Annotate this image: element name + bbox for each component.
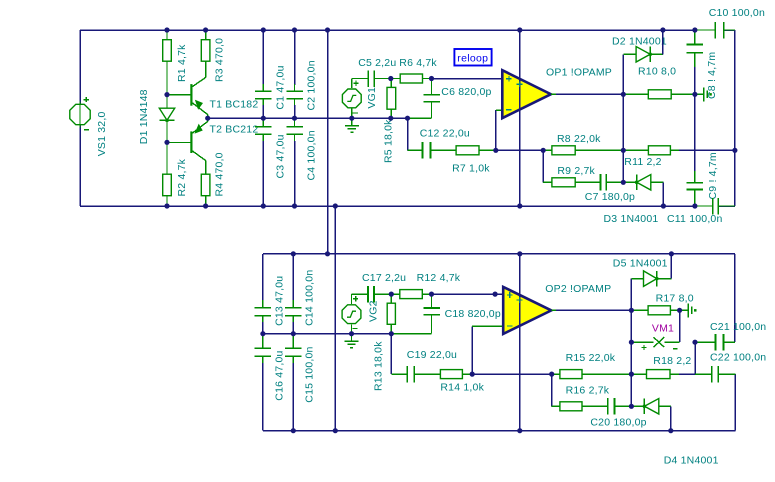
op-amp OP1 xyxy=(502,70,558,118)
resistor R16 xyxy=(552,402,608,411)
wire OP1 power rail xyxy=(517,30,523,206)
svg-text:C4 100,0n: C4 100,0n xyxy=(305,130,317,180)
diode D1 xyxy=(159,95,174,143)
diode D5 xyxy=(631,271,671,287)
svg-text:reloop: reloop xyxy=(457,53,488,65)
wire lower right rail upper xyxy=(734,254,736,342)
resistor R3 xyxy=(201,30,210,61)
wire left rail (above VS1) xyxy=(79,30,81,104)
wire mid node lower block xyxy=(263,333,391,335)
svg-text:C9 ! 4,7m: C9 ! 4,7m xyxy=(707,152,719,199)
capacitor C5 xyxy=(368,70,391,87)
svg-text:C17 2,2u: C17 2,2u xyxy=(362,272,406,284)
wire D4 to -V xyxy=(670,406,672,430)
wire R16 branch xyxy=(551,374,553,406)
label D4 1N4001 xyxy=(664,454,719,466)
ground (below VG1) xyxy=(345,118,359,132)
resistor R14 xyxy=(440,370,472,379)
svg-text:C16 47,0u: C16 47,0u xyxy=(273,350,285,400)
capacitor C11 xyxy=(695,198,735,215)
svg-text:R13 18,0k: R13 18,0k xyxy=(373,341,385,391)
wire emitter mid node xyxy=(208,117,408,119)
capacitor C20 xyxy=(608,398,632,415)
source VG1 xyxy=(342,79,368,119)
resistor R8 xyxy=(543,146,623,155)
wire VM1 right branch xyxy=(664,310,679,342)
label D5 1N4001 xyxy=(613,257,668,269)
label R11 2,2 xyxy=(624,156,661,168)
svg-text:D4 1N4001: D4 1N4001 xyxy=(664,454,719,466)
svg-text:R8 22,0k: R8 22,0k xyxy=(557,133,601,145)
capacitor C12 xyxy=(408,142,457,159)
label C3 47,0u xyxy=(275,134,287,178)
svg-text:C3 47,0u: C3 47,0u xyxy=(275,134,287,178)
label C18 820,0p xyxy=(445,308,501,320)
label C19 22,0u xyxy=(407,349,457,361)
wire -V rail (bottom, left section) xyxy=(80,205,695,207)
label T1 BC182 xyxy=(210,99,259,111)
junction dots (lower block) xyxy=(260,251,697,433)
label C8 ! 4,7m xyxy=(706,52,718,99)
wire R9 branch xyxy=(542,150,544,182)
resistor R9 xyxy=(543,178,600,187)
wire right rail xyxy=(734,30,736,206)
label C6 820,0p xyxy=(441,86,491,98)
svg-text:OP1 !OPAMP: OP1 !OPAMP xyxy=(546,67,612,79)
label OP1 !OPAMP xyxy=(546,67,612,79)
capacitor C18 xyxy=(391,294,439,334)
label T2 BC212 xyxy=(210,123,259,135)
capacitor C15 xyxy=(285,334,302,431)
wire +V rail (top, left section) xyxy=(80,29,695,31)
label R18 2,2 xyxy=(653,355,691,367)
svg-text:R17 8,0: R17 8,0 xyxy=(656,293,694,305)
svg-text:D1 1N4148: D1 1N4148 xyxy=(138,89,150,144)
resistor R10 xyxy=(623,90,695,99)
resistor R18 xyxy=(631,370,679,379)
svg-text:C10 100,0n: C10 100,0n xyxy=(709,7,765,19)
capacitor C7 xyxy=(601,174,624,191)
svg-text:R4 470,0: R4 470,0 xyxy=(214,152,226,196)
wire OP2 output xyxy=(556,309,631,311)
wire -V to lower block xyxy=(334,206,336,431)
label VG2 xyxy=(368,300,380,322)
resistor R13 xyxy=(387,294,395,334)
label C9 ! 4,7m xyxy=(707,152,719,199)
capacitor C14 xyxy=(285,254,302,334)
svg-text:R5 18,0k: R5 18,0k xyxy=(383,119,395,163)
capacitor C2 xyxy=(286,30,303,118)
capacitor C21 xyxy=(695,334,735,351)
meter VM1 xyxy=(631,337,677,350)
resistor R11 xyxy=(623,146,735,155)
label R7 1,0k xyxy=(452,163,490,175)
label C13 47,0u xyxy=(273,276,285,326)
wire D3 to -V xyxy=(662,182,664,206)
svg-text:R2 4,7k: R2 4,7k xyxy=(176,158,188,196)
label R13 18,0k xyxy=(373,341,385,391)
wire -V rail (right of C11) xyxy=(719,205,735,207)
svg-text:R15 22,0k: R15 22,0k xyxy=(566,352,616,364)
svg-text:C5 2,2u: C5 2,2u xyxy=(358,57,396,69)
label R12 4,7k xyxy=(417,272,461,284)
svg-text:C7 180,0p: C7 180,0p xyxy=(585,191,635,203)
label R5 18,0k xyxy=(383,119,395,163)
label C4 100,0n xyxy=(305,130,317,180)
label C1 47,0u xyxy=(275,65,287,109)
wire to OP2 - input xyxy=(472,326,503,374)
connector (output node) xyxy=(695,87,712,101)
svg-text:R9 2,7k: R9 2,7k xyxy=(557,165,595,177)
source VG2 xyxy=(342,294,368,334)
label D2 1N4001 xyxy=(612,36,667,48)
wire to OP2 + input xyxy=(432,293,504,295)
label C10 100,0n xyxy=(709,7,765,19)
diode D4 xyxy=(631,399,670,415)
label C17 2,2u xyxy=(362,272,406,284)
wire lower right rail lower xyxy=(734,374,736,431)
label C22 100,0n xyxy=(710,352,766,364)
wire D5 to +V xyxy=(670,254,672,279)
label R2 4,7k xyxy=(176,158,188,196)
wire feedback column xyxy=(622,54,624,182)
wire R7 node to R8 xyxy=(496,149,543,151)
wire +V to lower block xyxy=(327,30,329,254)
wire +V rail lower block xyxy=(263,253,735,255)
label R10 8,0 xyxy=(638,66,676,78)
svg-text:VG1: VG1 xyxy=(366,87,378,109)
diode D3 xyxy=(623,175,663,191)
capacitor C6 xyxy=(408,79,440,119)
svg-text:OP2 !OPAMP: OP2 !OPAMP xyxy=(545,283,611,295)
capacitor C3 xyxy=(255,118,271,206)
svg-text:C13 47,0u: C13 47,0u xyxy=(273,276,285,326)
op-amp OP2 xyxy=(503,287,558,334)
resistor R12 xyxy=(391,290,431,299)
svg-text:R10 8,0: R10 8,0 xyxy=(638,66,676,78)
label R3 470,0 xyxy=(214,38,226,82)
svg-text:C2 100,0n: C2 100,0n xyxy=(305,60,317,110)
svg-text:C1 47,0u: C1 47,0u xyxy=(275,65,287,109)
diode D2 xyxy=(623,47,663,63)
label R1 4,7k xyxy=(176,44,188,82)
svg-text:C22 100,0n: C22 100,0n xyxy=(710,352,766,364)
svg-text:R7 1,0k: R7 1,0k xyxy=(452,163,490,175)
resistor R2 xyxy=(163,142,172,206)
wire C6/C12 node drop xyxy=(407,118,409,150)
wire OP2 power rail xyxy=(517,254,523,431)
transistor T1 xyxy=(167,61,208,118)
junction dots (upper block) xyxy=(164,27,737,208)
capacitor C4 xyxy=(286,118,303,206)
svg-text:C6 820,0p: C6 820,0p xyxy=(441,86,491,98)
label VS1 32,0 xyxy=(96,111,108,156)
svg-text:R6 4,7k: R6 4,7k xyxy=(399,57,437,69)
resistor R7 xyxy=(456,146,496,155)
svg-text:R1 4,7k: R1 4,7k xyxy=(176,44,188,82)
resistor R17 xyxy=(631,306,679,315)
svg-text:C11 100,0n: C11 100,0n xyxy=(667,213,723,225)
label D3 1N4001 xyxy=(604,213,659,225)
label C11 100,0n xyxy=(667,213,723,225)
svg-text:VS1 32,0: VS1 32,0 xyxy=(96,111,108,156)
source VS1 xyxy=(70,97,90,130)
capacitor C13 xyxy=(255,254,272,334)
connector (after R17) xyxy=(680,303,697,317)
label R15 22,0k xyxy=(566,352,616,364)
label C5 2,2u xyxy=(358,57,396,69)
label OP2 !OPAMP xyxy=(545,283,611,295)
label VM1 xyxy=(652,323,674,335)
resistor R15 xyxy=(552,370,632,379)
svg-text:R16 2,7k: R16 2,7k xyxy=(566,384,610,396)
svg-text:R3 470,0: R3 470,0 xyxy=(214,38,226,82)
svg-text:VG2: VG2 xyxy=(368,300,380,322)
label C12 22,0u xyxy=(420,128,470,140)
label R14 1,0k xyxy=(440,382,484,394)
svg-text:C12 22,0u: C12 22,0u xyxy=(420,128,470,140)
wire OP1 output xyxy=(556,93,623,95)
wire +V rail (top, right of C10) xyxy=(724,29,735,31)
resistor R1 xyxy=(163,30,172,95)
svg-text:C21 100,0n: C21 100,0n xyxy=(710,321,766,333)
wire left rail (below VS1) xyxy=(79,125,81,206)
ground (below VG2) xyxy=(345,334,359,348)
svg-text:T1 BC182: T1 BC182 xyxy=(210,99,259,111)
resistor R5 xyxy=(387,79,396,119)
capacitor C9 xyxy=(687,94,704,206)
wire R13/C19 node drop xyxy=(390,334,392,374)
svg-text:D5 1N4001: D5 1N4001 xyxy=(613,257,668,269)
label R8 22,0k xyxy=(557,133,601,145)
label R16 2,7k xyxy=(566,384,610,396)
label C7 180,0p xyxy=(585,191,635,203)
capacitor C10 xyxy=(695,22,735,39)
wire to OP1 - input xyxy=(496,110,503,150)
capacitor C17 xyxy=(368,286,391,303)
svg-text:T2 BC212: T2 BC212 xyxy=(210,123,259,135)
svg-text:C14 100,0n: C14 100,0n xyxy=(304,270,316,326)
label VG1 xyxy=(366,87,378,109)
wire C21 node drop xyxy=(679,342,695,374)
svg-text:C19 22,0u: C19 22,0u xyxy=(407,349,457,361)
label C21 100,0n xyxy=(710,321,766,333)
label R6 4,7k xyxy=(399,57,437,69)
wire output column lower xyxy=(630,279,632,407)
label C16 47,0u xyxy=(273,350,285,400)
label C15 100,0n xyxy=(304,346,316,402)
svg-text:C15 100,0n: C15 100,0n xyxy=(304,346,316,402)
capacitor C19 xyxy=(391,366,440,383)
svg-text:R14 1,0k: R14 1,0k xyxy=(440,382,484,394)
capacitor C8 xyxy=(687,30,704,94)
label box reloop xyxy=(454,49,491,66)
label C14 100,0n xyxy=(304,270,316,326)
svg-text:C18 820,0p: C18 820,0p xyxy=(445,308,501,320)
label D1 1N4148 xyxy=(138,89,150,144)
wire to OP1 + input xyxy=(432,78,503,80)
svg-text:VM1: VM1 xyxy=(652,323,674,335)
svg-text:D3 1N4001: D3 1N4001 xyxy=(604,213,659,225)
svg-text:R11 2,2: R11 2,2 xyxy=(624,156,661,168)
resistor R4 xyxy=(201,174,210,206)
capacitor C1 xyxy=(255,30,271,118)
svg-text:C20 180,0p: C20 180,0p xyxy=(590,417,646,429)
wire D2 to +V xyxy=(662,30,664,54)
label R9 2,7k xyxy=(557,165,595,177)
transistor T2 xyxy=(167,118,208,174)
label R4 470,0 xyxy=(214,152,226,196)
label C2 100,0n xyxy=(305,60,317,110)
svg-text:R12 4,7k: R12 4,7k xyxy=(417,272,461,284)
label R17 8,0 xyxy=(656,293,694,305)
capacitor C16 xyxy=(255,334,272,431)
resistor R6 xyxy=(391,74,432,83)
svg-text:R18 2,2: R18 2,2 xyxy=(653,355,691,367)
capacitor C22 xyxy=(695,366,735,383)
wire R14 node to R15 xyxy=(472,373,552,375)
wire -V rail lower block xyxy=(263,430,735,432)
label C20 180,0p xyxy=(590,417,646,429)
svg-text:D2 1N4001: D2 1N4001 xyxy=(612,36,667,48)
